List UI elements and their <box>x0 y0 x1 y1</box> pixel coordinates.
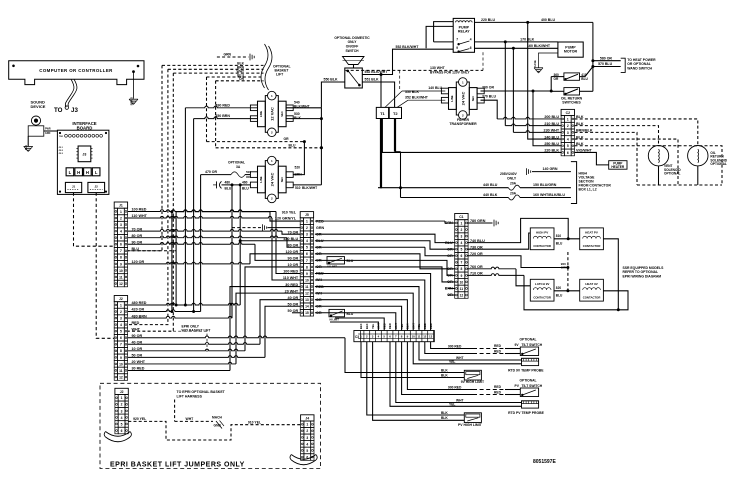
wire 10 OR J2 <box>128 349 245 351</box>
svg-text:BLU: BLU <box>289 143 297 147</box>
wire BRN basket-lift <box>168 68 264 70</box>
svg-text:1: 1 <box>121 396 123 400</box>
wire WHT drop (dashed) <box>128 73 174 331</box>
wire sw1 right diag <box>580 67 593 77</box>
wire 170 BLK <box>475 41 558 43</box>
wire 350 BLK <box>385 91 402 107</box>
svg-text:RED: RED <box>494 344 502 348</box>
svg-text:HIGH PV: HIGH PV <box>536 231 548 235</box>
wire C3-4 stub <box>330 322 378 331</box>
connectors L H H L <box>66 168 74 176</box>
contactor latch 9V <box>530 279 554 301</box>
svg-text:470 OR: 470 OR <box>205 170 218 174</box>
wire C1-12 stub <box>448 294 455 296</box>
cable to J3 <box>65 79 74 107</box>
connector J2 on board <box>88 182 105 192</box>
wire BLU (dashed) <box>216 147 322 149</box>
svg-text:OR: OR <box>284 137 290 141</box>
svg-text:J5-1: J5-1 <box>59 147 64 149</box>
svg-text:YEL: YEL <box>449 360 455 364</box>
9V temp probe <box>522 358 539 365</box>
wire OR drop (dashed) <box>215 81 217 148</box>
svg-text:9: 9 <box>120 356 122 360</box>
svg-text:140 BLU: 140 BLU <box>428 86 442 90</box>
svg-text:GRN: GRN <box>223 53 231 57</box>
wire C2 to pump heater <box>575 152 609 164</box>
svg-text:8051597E: 8051597E <box>533 459 556 465</box>
svg-text:3: 3 <box>306 233 308 237</box>
wire J5-13 to C3-9 <box>315 300 408 331</box>
svg-text:7: 7 <box>306 259 308 263</box>
wire 120 OR <box>128 262 250 264</box>
wire C2-4 dashed <box>575 139 679 185</box>
wire C3-6b to PV probe 2 <box>390 342 522 407</box>
svg-text:4: 4 <box>470 37 472 41</box>
svg-text:RTD PV TEMP PROBE: RTD PV TEMP PROBE <box>508 411 544 415</box>
svg-text:BLK: BLK <box>441 374 448 378</box>
svg-text:480: 480 <box>225 181 231 185</box>
svg-text:1: 1 <box>120 210 122 214</box>
svg-text:T2: T2 <box>393 111 398 116</box>
vent solenoid <box>648 146 668 166</box>
wire J5-3 to C1-4 <box>315 234 455 242</box>
svg-text:2: 2 <box>567 124 569 128</box>
wire J5-6 to C1-8 <box>315 254 455 269</box>
break squiggle J2 epri <box>106 432 131 437</box>
wire 70 OR <box>128 229 282 231</box>
svg-text:9: 9 <box>120 262 122 266</box>
svg-text:6: 6 <box>120 336 122 340</box>
svg-text:CONTACTOR: CONTACTOR <box>533 244 551 248</box>
svg-text:1: 1 <box>306 423 308 427</box>
wire C2-1 dashed <box>575 119 698 145</box>
svg-text:OR: OR <box>554 77 559 81</box>
svg-text:5: 5 <box>567 144 569 148</box>
connector strip C1 <box>455 214 468 220</box>
svg-text:11: 11 <box>417 334 420 338</box>
svg-text:BLK: BLK <box>441 416 448 420</box>
svg-text:3: 3 <box>121 409 123 413</box>
svg-text:LINE: LINE <box>259 111 263 117</box>
svg-text:4: 4 <box>121 416 123 420</box>
svg-text:14: 14 <box>305 305 309 309</box>
contactor latch PV <box>530 228 554 250</box>
svg-text:20A: 20A <box>510 182 517 186</box>
chassis ground at J5-2 <box>262 224 264 231</box>
svg-text:1: 1 <box>567 117 569 121</box>
PV high limit <box>464 413 481 423</box>
svg-text:BLU: BLU <box>347 259 354 263</box>
svg-text:BLK: BLK <box>441 368 448 372</box>
svg-text:900 RED: 900 RED <box>448 385 462 389</box>
svg-text:3: 3 <box>120 223 122 227</box>
svg-text:BLK/WHT: BLK/WHT <box>294 104 311 108</box>
svg-text:5: 5 <box>120 236 122 240</box>
sound device ground <box>27 136 29 146</box>
svg-text:24 VAC: 24 VAC <box>460 92 465 106</box>
wire 470 OR with fuse <box>201 174 231 176</box>
computer or controller box <box>9 61 144 85</box>
svg-text:CONTACTOR: CONTACTOR <box>583 295 601 299</box>
svg-text:CONTACTOR: CONTACTOR <box>533 295 551 299</box>
svg-text:H: H <box>77 170 80 175</box>
connector strip J5 (middle) <box>300 212 313 218</box>
wire C3-8 to PV tilt 2 <box>402 342 473 395</box>
svg-text:J5-2: J5-2 <box>59 150 64 152</box>
wire 810 BLU <box>554 238 580 240</box>
svg-text:BYPASS FOR 120V ONLY: BYPASS FOR 120V ONLY <box>430 70 470 74</box>
svg-text:WAND SWITCH: WAND SWITCH <box>627 66 652 70</box>
contactor heat 9V <box>580 279 604 301</box>
svg-text:BLU: BLU <box>581 77 588 81</box>
svg-text:6: 6 <box>306 252 308 256</box>
svg-text:WHT: WHT <box>456 398 464 402</box>
svg-text:LINE: LINE <box>259 176 263 182</box>
svg-text:352 BLK/WHT: 352 BLK/WHT <box>405 96 429 100</box>
wire J5-11 to C3-11 <box>315 287 419 331</box>
wire 80 OR <box>128 236 287 238</box>
svg-text:HI LIMIT: HI LIMIT <box>330 318 340 321</box>
wire C1-11 stub <box>448 287 455 289</box>
svg-text:RED: RED <box>494 385 502 389</box>
svg-text:150 BLU/GRN: 150 BLU/GRN <box>533 183 557 187</box>
wire 200 BLU <box>497 117 561 119</box>
svg-text:13: 13 <box>305 298 309 302</box>
svg-text:LINE: LINE <box>450 95 454 101</box>
connector J1 on board <box>65 182 81 192</box>
wire 210 BLU <box>504 42 506 126</box>
wire C3-3 to PV high limit 2 <box>373 342 465 421</box>
wire C2-5 dashed <box>575 146 723 185</box>
svg-text:OPTIONAL: OPTIONAL <box>519 338 536 342</box>
wire 450 BRN <box>194 117 258 119</box>
svg-text:552 BLK/WHT: 552 BLK/WHT <box>396 45 420 49</box>
chassis ground 140 GRN <box>526 168 528 175</box>
svg-text:TO EPRI OPTIONAL BASKET: TO EPRI OPTIONAL BASKET <box>177 390 226 394</box>
connector strip J2 epri <box>115 388 128 394</box>
svg-text:8: 8 <box>460 267 462 271</box>
oil return solenoid <box>688 146 708 166</box>
wire to T1 <box>380 75 382 108</box>
svg-text:13: 13 <box>429 334 433 338</box>
svg-text:MACH: MACH <box>212 415 223 419</box>
svg-text:BLK: BLK <box>294 116 302 120</box>
wire 40 OR J2 <box>128 343 260 345</box>
svg-text:570 BLU: 570 BLU <box>598 62 612 66</box>
wire 230 WHT <box>512 48 514 132</box>
svg-text:12: 12 <box>423 334 427 338</box>
svg-text:SEC: SEC <box>280 177 284 183</box>
svg-text:820: 820 <box>556 286 562 290</box>
braid ground <box>133 71 135 73</box>
svg-text:EPRI BASKET LIFT JUMPERS O: EPRI BASKET LIFT JUMPERS ONLY <box>110 462 245 469</box>
break squiggle basket lift <box>261 44 268 88</box>
svg-text:11: 11 <box>305 285 309 289</box>
oil return switch 1 <box>564 73 580 80</box>
wire T1 heavy <box>380 119 382 189</box>
wire 520 BRN <box>293 142 304 175</box>
svg-text:580 OR: 580 OR <box>600 56 613 60</box>
svg-text:10: 10 <box>460 280 464 284</box>
svg-text:WHT: WHT <box>456 356 464 360</box>
svg-text:450 BRN: 450 BRN <box>215 114 230 118</box>
svg-text:TILT SWITCH: TILT SWITCH <box>522 343 543 347</box>
terminal T2 <box>389 107 401 118</box>
svg-text:LATCH 9V: LATCH 9V <box>535 282 549 286</box>
svg-text:CASE: CASE <box>533 60 537 67</box>
svg-text:PWR: PWR <box>45 128 51 131</box>
case ground <box>539 53 558 68</box>
svg-text:140 GRN: 140 GRN <box>543 167 558 171</box>
svg-text:BLU: BLU <box>225 187 232 191</box>
wire 370 BLU <box>481 100 498 119</box>
wire 450 BRN drop <box>193 119 195 312</box>
wire T2 heavy <box>394 119 396 152</box>
svg-text:GND: GND <box>214 424 222 428</box>
pump heater box <box>609 161 627 170</box>
wire C2-2 dashed <box>575 126 659 146</box>
svg-text:4: 4 <box>120 323 122 327</box>
svg-text:8: 8 <box>120 349 122 353</box>
wire 240 BLU <box>528 22 561 139</box>
wire 352 BLK/WHT <box>397 100 408 107</box>
svg-text:5: 5 <box>460 248 462 252</box>
svg-text:551 BLK: 551 BLK <box>365 78 379 82</box>
wire 740 BLU <box>467 218 568 242</box>
svg-text:15: 15 <box>305 311 309 315</box>
svg-text:3: 3 <box>460 234 462 238</box>
svg-text:H: H <box>86 170 89 175</box>
svg-text:160 WHT/BLK/BLU: 160 WHT/BLK/BLU <box>533 193 565 197</box>
svg-text:RED: RED <box>388 323 392 329</box>
relay feed loop <box>434 22 454 42</box>
svg-text:4: 4 <box>120 230 122 234</box>
break squiggle J4 epri <box>291 455 316 460</box>
wire 480 BRN <box>128 316 232 318</box>
svg-text:SWITCHES: SWITCHES <box>562 101 581 105</box>
svg-text:440 BLK: 440 BLK <box>483 193 498 197</box>
svg-text:TO: TO <box>54 107 63 114</box>
svg-text:10: 10 <box>119 269 123 273</box>
svg-text:440 BLU: 440 BLU <box>483 183 498 187</box>
wire 30 RED J2 <box>128 369 230 371</box>
wire C3-9 to PV tilt 1 <box>407 342 473 390</box>
wire 160 BLK/WHT <box>475 47 558 49</box>
svg-text:GRD: GRD <box>45 132 51 135</box>
svg-text:7: 7 <box>120 343 122 347</box>
svg-text:8: 8 <box>306 265 308 269</box>
svg-text:J1: J1 <box>72 184 76 188</box>
svg-text:7: 7 <box>456 37 458 41</box>
wire 90 OR <box>128 243 255 245</box>
svg-text:BLK: BLK <box>359 323 363 329</box>
wire J5-14 to C3-8 <box>315 306 402 330</box>
svg-text:DEVICE: DEVICE <box>31 104 46 109</box>
svg-text:12: 12 <box>305 292 309 296</box>
svg-text:24 VAC: 24 VAC <box>269 173 274 187</box>
wire 780 GRN <box>467 222 492 224</box>
svg-text:3: 3 <box>306 436 308 440</box>
svg-text:510: 510 <box>295 186 301 190</box>
svg-text:BLK: BLK <box>441 411 448 415</box>
svg-text:4: 4 <box>306 442 308 446</box>
svg-text:810: 810 <box>556 234 562 238</box>
wire OR (dashed) <box>207 141 305 143</box>
svg-text:11: 11 <box>460 287 464 291</box>
wire sw2 <box>551 90 564 92</box>
wire 720 OR <box>467 256 568 268</box>
wire J5-1 to C1-1 <box>315 220 445 222</box>
wire C3-7 to PV probe <box>396 342 522 403</box>
svg-text:8: 8 <box>120 256 122 260</box>
svg-text:OPTIONAL: OPTIONAL <box>710 162 727 166</box>
svg-text:RTD 9V TEMP PROBE: RTD 9V TEMP PROBE <box>508 369 544 373</box>
vertical 400 BLU to 580 OR <box>592 22 594 91</box>
power switch body <box>345 68 363 88</box>
svg-text:PV HIGH LIMIT: PV HIGH LIMIT <box>458 423 483 427</box>
9V high limit <box>464 370 481 380</box>
wire sound device to board <box>44 130 58 132</box>
wire box2 right loop <box>603 239 618 310</box>
svg-text:J5-3: J5-3 <box>59 153 64 155</box>
wire BRN drop (dashed) <box>128 69 168 324</box>
svg-text:MOTOR: MOTOR <box>564 50 578 54</box>
svg-text:5: 5 <box>121 422 123 426</box>
pump relay box <box>453 18 474 52</box>
svg-text:ONLY: ONLY <box>348 40 358 44</box>
svg-text:BLU: BLU <box>556 242 563 246</box>
wire 552 BLK/WHT <box>362 49 453 74</box>
wire 900 GRN <box>567 252 569 291</box>
svg-text:OPTIONAL: OPTIONAL <box>228 160 245 164</box>
wire J5-12 to C3-10 <box>315 293 413 330</box>
wire C3-11 to 9V probe <box>419 342 522 360</box>
svg-text:GRN: GRN <box>316 226 325 230</box>
svg-text:6: 6 <box>460 254 462 258</box>
wire sw1 left <box>551 76 564 78</box>
wire 480/460 BLU <box>222 184 251 186</box>
transformer 12 VAC <box>265 96 278 133</box>
wire J5-15 to C3-7 <box>315 313 396 331</box>
wire J5-7 to C1-9 <box>315 260 455 275</box>
interface board box <box>57 130 109 194</box>
svg-text:4: 4 <box>567 137 569 141</box>
svg-text:YEL: YEL <box>449 402 455 406</box>
svg-text:BLK: BLK <box>365 323 369 329</box>
wire C3-13 to 9V tilt 1 <box>431 342 473 349</box>
wire 90 OR J2 <box>128 336 345 338</box>
wire 510 BLK/WHT <box>293 184 321 186</box>
svg-text:490 RED: 490 RED <box>215 103 230 107</box>
svg-text:2: 2 <box>120 216 122 220</box>
wire solenoid bottom rail <box>637 184 722 186</box>
wire 820 BLU <box>554 290 580 292</box>
wire 250 BLU <box>533 91 561 146</box>
bracket high voltage <box>571 162 577 204</box>
svg-text:9V HIGH LIMIT: 9V HIGH LIMIT <box>461 380 485 384</box>
svg-text:ONLY: ONLY <box>507 176 517 180</box>
svg-text:6: 6 <box>470 46 472 50</box>
wire 551 BLK <box>362 82 394 107</box>
pump motor box <box>558 42 583 57</box>
wire C3-5 stub <box>335 318 384 331</box>
svg-text:J4: J4 <box>305 416 309 420</box>
svg-text:BOX L1, L2: BOX L1, L2 <box>579 188 597 192</box>
svg-text:SWITCH: SWITCH <box>345 49 359 53</box>
svg-text:RELAY: RELAY <box>458 30 470 34</box>
wire 220/400 BLU <box>475 21 593 23</box>
svg-text:RED: RED <box>494 349 502 353</box>
svg-text:4: 4 <box>306 239 308 243</box>
svg-text:130 WHT: 130 WHT <box>430 66 446 70</box>
svg-text:7: 7 <box>120 249 122 253</box>
svg-text:BLK/WHT: BLK/WHT <box>302 186 317 190</box>
svg-text:10: 10 <box>305 278 309 282</box>
wire 150 BLU/GRN with fuse <box>378 187 508 189</box>
wire 100 RED <box>128 210 276 212</box>
svg-text:3: 3 <box>567 131 569 135</box>
svg-text:5: 5 <box>120 330 122 334</box>
svg-text:10: 10 <box>119 362 123 366</box>
wire epri jumper (dashed) <box>128 421 300 440</box>
wire from J1 connector (dashed) <box>74 193 115 247</box>
svg-text:1: 1 <box>120 303 122 307</box>
connector strip C3 <box>354 331 434 342</box>
chip J3 <box>78 146 91 162</box>
svg-text:WHT: WHT <box>186 417 195 421</box>
wire WHT dashed down <box>173 331 207 352</box>
wire J5-10 to C3-12 <box>315 280 425 330</box>
svg-text:HEAT PV: HEAT PV <box>585 231 598 235</box>
wire 530 BLK <box>286 118 322 120</box>
wire 50 OR J2 <box>128 356 265 358</box>
svg-text:LIFT: LIFT <box>276 73 284 77</box>
svg-text:160 BLK/WHT: 160 BLK/WHT <box>527 44 551 48</box>
svg-text:900 RED: 900 RED <box>448 344 462 348</box>
connector strip C2 <box>561 109 574 115</box>
wire 490 RED <box>185 106 257 108</box>
svg-text:12: 12 <box>119 375 123 379</box>
svg-text:L: L <box>95 170 98 175</box>
PV tilt switch <box>520 388 538 397</box>
svg-text:1: 1 <box>306 219 308 223</box>
svg-text:400 BLU: 400 BLU <box>541 18 555 22</box>
wire 910 YEL riser <box>175 212 177 305</box>
vertical bus 321 <box>320 108 322 185</box>
wire 710 OR <box>467 274 524 276</box>
svg-text:12 VAC: 12 VAC <box>269 107 274 121</box>
svg-text:11: 11 <box>119 275 123 279</box>
svg-text:SEC: SEC <box>280 111 284 117</box>
svg-text:120 GRN/YL: 120 GRN/YL <box>275 217 297 221</box>
wire 110 WHT <box>128 216 272 218</box>
svg-text:J3: J3 <box>71 107 78 114</box>
wire BLU basket-lift <box>207 76 264 78</box>
wire C3-10 to 9V probe 2 <box>413 342 521 364</box>
wire C2-3 dashed <box>575 132 638 185</box>
switch actuator <box>343 57 365 65</box>
wire OR basket-lift <box>216 80 264 82</box>
svg-text:J2: J2 <box>120 390 124 394</box>
svg-text:J2: J2 <box>119 297 123 301</box>
svg-text:BOARD: BOARD <box>77 126 93 131</box>
svg-text:1: 1 <box>460 221 462 225</box>
svg-text:220 BLU: 220 BLU <box>481 18 495 22</box>
wire BLK drop (dashed) <box>128 65 162 250</box>
svg-text:ON/OFF: ON/OFF <box>346 45 358 49</box>
wire J5-15 stub <box>292 312 300 314</box>
wire GRN (dashed) <box>217 56 249 58</box>
